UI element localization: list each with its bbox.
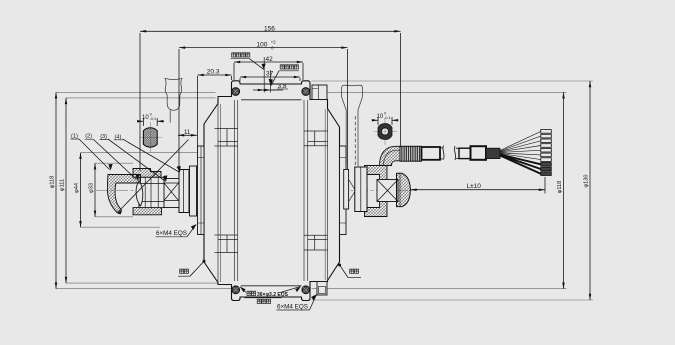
freewheel shell top band <box>133 169 161 178</box>
cover double-wall lines <box>221 104 326 282</box>
svg-text:37: 37 <box>266 71 274 78</box>
ribbed strain relief <box>400 146 422 161</box>
dim 10 right <box>378 117 392 125</box>
svg-text:φ33: φ33 <box>89 183 95 193</box>
axle centerline <box>96 189 412 191</box>
dimension value texts <box>71 25 481 310</box>
right axle section centerlines <box>374 118 397 145</box>
svg-text:100: 100 <box>257 42 268 49</box>
svg-text:φ118: φ118 <box>557 181 563 194</box>
dim 156 <box>140 30 401 32</box>
cover screw boss left bottom <box>215 235 239 253</box>
chainstay cap part (1) hatched C <box>107 175 140 213</box>
callout (4) leader <box>123 139 180 172</box>
svg-text:φ118: φ118 <box>50 176 56 189</box>
spoke center label <box>280 65 298 69</box>
phi118 left dim line <box>55 92 57 288</box>
dim 11 <box>178 134 197 136</box>
svg-text:6×M4 EQS: 6×M4 EQS <box>277 303 308 310</box>
callout (1) leader <box>79 139 110 170</box>
svg-text:(4): (4) <box>115 134 122 140</box>
svg-text:φ44: φ44 <box>74 183 80 193</box>
cover screw boss right bottom <box>304 235 328 250</box>
terminal blocks <box>541 130 552 176</box>
callout leader arrowheads and dots <box>106 62 341 301</box>
svg-text:φ111: φ111 <box>60 179 66 191</box>
phi130 dim line <box>589 81 591 300</box>
svg-text:φ130: φ130 <box>584 175 590 188</box>
dim 37 <box>240 76 300 78</box>
frame center label <box>232 53 250 57</box>
svg-text:3.8: 3.8 <box>278 83 287 90</box>
washer (4) <box>179 170 189 213</box>
two rows spoke holes label <box>247 291 271 303</box>
phi111 ext lines <box>66 98 232 283</box>
6xM4 left leader <box>187 225 196 237</box>
cover screw boss right top <box>304 131 328 146</box>
cone crescent (2) <box>136 181 143 207</box>
svg-text:0: 0 <box>384 112 386 116</box>
svg-text:0: 0 <box>150 113 152 117</box>
spoke hole label leaders <box>240 287 301 293</box>
svg-text:10: 10 <box>142 115 149 121</box>
dim 10 left <box>143 118 157 126</box>
thin signal wires <box>500 131 541 159</box>
svg-text:36×φ3.2 EQS: 36×φ3.2 EQS <box>257 292 289 298</box>
cable segment 2 <box>459 148 471 158</box>
axle hidden stubs at covers <box>197 182 344 199</box>
svg-text:6×M4 EQS: 6×M4 EQS <box>156 230 187 237</box>
washer right <box>344 170 349 210</box>
right shell label leader <box>340 266 348 278</box>
phi111 dim line <box>65 98 67 283</box>
hub axle boss <box>190 166 197 216</box>
freewheel shell bottom band <box>133 208 162 215</box>
phi118 right ext lines <box>312 92 567 288</box>
svg-text:-0.1: -0.1 <box>150 117 157 121</box>
cover screw boss left top <box>215 129 239 147</box>
locknut <box>355 167 367 212</box>
dim 100 <box>179 47 348 49</box>
right axle section (hollow) <box>378 123 392 139</box>
svg-text:(1): (1) <box>71 134 78 140</box>
frame center line <box>263 57 265 93</box>
svg-text:156: 156 <box>264 25 275 32</box>
svg-text:11: 11 <box>184 130 191 136</box>
right boss ring <box>340 146 347 235</box>
cable elbow <box>380 146 401 165</box>
right cover bolt block top <box>312 85 327 100</box>
motor hub shell outline <box>204 81 340 301</box>
spoke center line <box>270 70 272 93</box>
axle threads left of nut <box>349 180 362 201</box>
internal cover join lines <box>218 100 328 283</box>
left axle section (solid, flats) <box>143 128 157 147</box>
freewheel body <box>139 177 164 207</box>
6xM4 right leader <box>310 295 317 311</box>
label underlines <box>71 59 362 310</box>
left brake boss ring <box>198 146 205 235</box>
svg-text:10: 10 <box>377 114 384 120</box>
axle end threads X box <box>377 180 398 202</box>
frame center leader <box>250 59 264 70</box>
dome nut <box>397 173 411 206</box>
phi33 dim line <box>94 163 96 217</box>
svg-text:+2: +2 <box>271 40 276 45</box>
right cover bolt block bottom <box>317 282 327 296</box>
svg-text:20.3: 20.3 <box>207 68 220 75</box>
dim 42 <box>234 61 303 63</box>
leader arrowhead at cap tip <box>117 210 123 215</box>
spoke flange hole circles <box>232 88 310 294</box>
spoke hole cross marks <box>233 89 308 292</box>
callout (2) leader <box>93 139 137 180</box>
svg-text:(3): (3) <box>100 134 107 140</box>
right fork dropout <box>342 85 363 166</box>
threaded axle section with X <box>163 179 179 208</box>
svg-text:L±10: L±10 <box>467 183 482 190</box>
phi33 ext lines <box>95 163 133 217</box>
svg-text:42: 42 <box>266 56 274 63</box>
dim L+-10 <box>411 189 546 191</box>
right shell label <box>350 269 359 273</box>
cable break symbol <box>441 146 460 161</box>
phi130 ext lines <box>312 81 594 300</box>
thick phase wires <box>500 155 541 174</box>
svg-text:-0.1: -0.1 <box>384 116 391 120</box>
phi44 dim line <box>80 153 82 228</box>
svg-text:(2): (2) <box>85 134 92 140</box>
dim 3.8 <box>253 89 283 91</box>
mystery leader into cap tip <box>119 140 189 212</box>
phi118 left ext lines <box>56 92 232 288</box>
cable guide bracket hatched C <box>365 166 388 217</box>
rim band inner lines <box>241 100 302 286</box>
callout (3) leader <box>108 139 165 181</box>
dim 20.3 <box>198 74 232 76</box>
left shell label <box>180 269 189 273</box>
left fork dropout <box>165 78 182 122</box>
spoke center leader <box>271 71 279 86</box>
phi118 right dim line <box>563 92 565 288</box>
rotated diameter texts <box>50 175 590 194</box>
connector sleeve <box>471 146 487 160</box>
ferrule <box>486 148 500 158</box>
left axle section centerlines <box>139 122 162 152</box>
cable segment 1 <box>422 147 441 160</box>
left shell label leader <box>190 262 203 276</box>
phi44 ext lines <box>81 153 198 228</box>
